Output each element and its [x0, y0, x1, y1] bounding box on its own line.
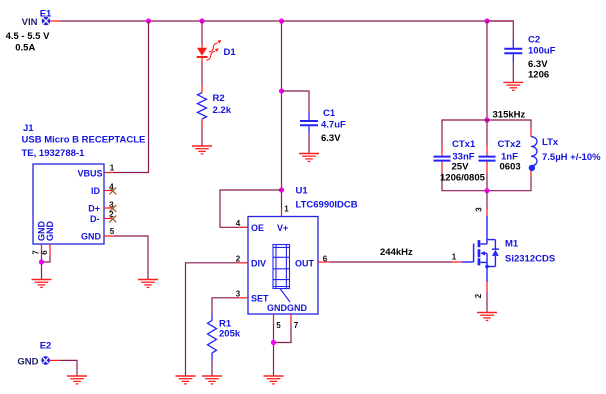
- U1 bottom pins 5,7: [274, 314, 292, 376]
- J1 bottom pins 7,6: [32, 221, 55, 280]
- port E1: [6, 8, 60, 53]
- svg-text:2: 2: [236, 255, 241, 264]
- svg-text:ID: ID: [91, 186, 101, 196]
- node U1 gnd junction: [271, 340, 276, 345]
- svg-text:D-: D-: [90, 214, 100, 224]
- ground (M1): [477, 313, 497, 321]
- ground (R2): [192, 146, 212, 154]
- svg-text:100uF: 100uF: [528, 46, 556, 57]
- svg-text:25V: 25V: [452, 161, 470, 172]
- svg-text:E1: E1: [40, 8, 52, 19]
- node rail-D1: [199, 18, 204, 23]
- svg-text:LTC6990IDCB: LTC6990IDCB: [296, 200, 358, 211]
- capacitor C1: [300, 108, 346, 154]
- U1 package drawing: [273, 245, 290, 303]
- wire CTx2 column: [486, 120, 488, 191]
- svg-text:GND: GND: [45, 221, 55, 242]
- svg-text:GND: GND: [17, 357, 38, 368]
- svg-text:GND: GND: [81, 232, 102, 242]
- svg-text:5: 5: [276, 321, 281, 330]
- wire VBUS riser: [104, 21, 149, 173]
- svg-text:E2: E2: [40, 341, 52, 352]
- svg-text:2.2k: 2.2k: [213, 105, 232, 116]
- svg-text:205k: 205k: [219, 329, 241, 340]
- port E2: [17, 341, 60, 368]
- svg-text:0.5A: 0.5A: [15, 43, 35, 54]
- capacitor C2: [504, 35, 555, 83]
- transistor M1: [462, 239, 555, 269]
- svg-text:M1: M1: [505, 239, 519, 250]
- svg-text:U1: U1: [296, 186, 309, 197]
- svg-text:R2: R2: [213, 93, 225, 104]
- node C1 branch: [279, 88, 284, 93]
- svg-text:D1: D1: [224, 47, 237, 58]
- svg-text:CTx2: CTx2: [498, 139, 521, 150]
- connector J1: [22, 123, 146, 244]
- svg-text:USB Micro B RECEPTACLE: USB Micro B RECEPTACLE: [22, 135, 146, 146]
- svg-text:4: 4: [236, 219, 241, 228]
- node J1 gnd junction: [39, 259, 44, 264]
- pin GND (5) wire to ground: [81, 227, 148, 280]
- svg-text:7.5µH +/-10%: 7.5µH +/-10%: [542, 152, 601, 163]
- svg-text:DIV: DIV: [251, 259, 266, 269]
- svg-text:6.3V: 6.3V: [321, 133, 341, 144]
- wire DIV: [186, 263, 249, 376]
- svg-text:C2: C2: [528, 35, 540, 46]
- pin ID (4) no-connect: [91, 183, 116, 197]
- ground (U1): [264, 376, 284, 384]
- wire C1/U1 riser: [281, 21, 283, 209]
- ground (C2): [503, 82, 523, 90]
- svg-text:3: 3: [475, 207, 484, 212]
- wire OE loop: [220, 190, 282, 227]
- node tank bottom: [484, 188, 489, 193]
- ground (E2): [67, 376, 87, 384]
- wire E2 to ground: [60, 360, 77, 376]
- svg-text:Si2312CDS: Si2312CDS: [505, 254, 555, 265]
- tank box wires: [442, 120, 531, 191]
- svg-text:VIN: VIN: [22, 17, 38, 28]
- capacitor CTx2: [479, 139, 521, 172]
- svg-text:6.3V: 6.3V: [528, 59, 548, 70]
- svg-text:244kHz: 244kHz: [380, 247, 413, 258]
- svg-text:4.7uF: 4.7uF: [321, 120, 346, 131]
- svg-text:V+: V+: [277, 223, 288, 233]
- svg-text:315kHz: 315kHz: [493, 110, 526, 121]
- pin D+ (3) no-connect: [88, 201, 116, 214]
- node rail-VBUS: [146, 18, 151, 23]
- node rail-C1: [279, 18, 284, 23]
- svg-text:1: 1: [452, 253, 457, 262]
- svg-text:2: 2: [474, 293, 483, 298]
- svg-text:1: 1: [110, 164, 115, 173]
- svg-text:SET: SET: [251, 294, 269, 304]
- svg-text:0603: 0603: [500, 161, 521, 172]
- node rail-C2: [484, 18, 489, 23]
- wire source: [474, 267, 487, 313]
- wire D1 branch: [201, 21, 203, 48]
- svg-text:1206: 1206: [528, 70, 549, 81]
- ground (GND5): [138, 280, 158, 288]
- svg-text:J1: J1: [23, 123, 34, 134]
- svg-text:6: 6: [40, 250, 49, 255]
- svg-text:LTx: LTx: [542, 137, 559, 148]
- resistor R2: [198, 93, 232, 119]
- wire SET: [212, 298, 248, 321]
- node tank top: [484, 117, 489, 122]
- svg-text:7: 7: [294, 321, 299, 330]
- wire R2-gnd: [201, 119, 203, 146]
- resistor R1: [208, 319, 241, 377]
- svg-text:TE, 1932788-1: TE, 1932788-1: [22, 148, 86, 159]
- node OE branch: [279, 187, 284, 192]
- svg-text:3: 3: [236, 290, 241, 299]
- svg-text:5: 5: [110, 227, 115, 236]
- wire OUT to gate: [318, 247, 462, 262]
- svg-text:OE: OE: [251, 223, 264, 233]
- wire V+ pin: [281, 209, 283, 217]
- inductor LTx: [529, 129, 601, 177]
- wire C1 branch: [282, 91, 310, 120]
- ground (C1): [299, 154, 319, 162]
- IC U1 LTC6990IDCB: [236, 186, 358, 331]
- ground (DIV): [176, 376, 196, 384]
- svg-text:4.5 - 5.5 V: 4.5 - 5.5 V: [6, 31, 50, 42]
- svg-text:GNDGND: GNDGND: [267, 303, 307, 313]
- svg-text:VBUS: VBUS: [77, 169, 102, 179]
- svg-text:D+: D+: [88, 204, 100, 214]
- wire tank riser: [486, 21, 488, 120]
- svg-text:OUT: OUT: [295, 259, 315, 269]
- svg-text:CTx1: CTx1: [452, 139, 476, 150]
- pin D- (2) no-connect: [90, 210, 116, 224]
- ground (J1): [32, 280, 52, 288]
- wire C2 branch: [487, 21, 513, 48]
- capacitor CTx1: [434, 139, 486, 184]
- wire drain: [475, 191, 488, 244]
- wire top rail: [60, 20, 513, 22]
- svg-text:1: 1: [284, 205, 289, 214]
- wire D1-R2: [201, 58, 203, 93]
- ground (R1): [202, 376, 222, 384]
- svg-text:1206/0805: 1206/0805: [440, 173, 486, 184]
- LED D1: [197, 40, 237, 60]
- svg-text:C1: C1: [323, 108, 336, 119]
